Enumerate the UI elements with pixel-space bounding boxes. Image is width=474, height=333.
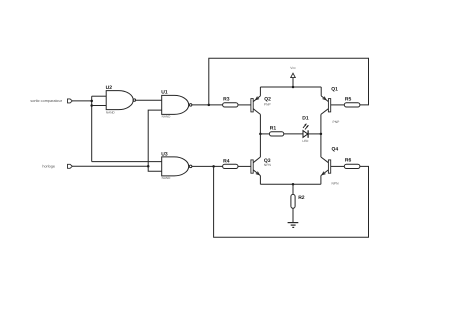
resistor R2 <box>291 194 295 208</box>
label U1 <box>161 90 168 96</box>
svg-text:R4: R4 <box>223 158 230 164</box>
node C: horloge junction <box>147 165 150 168</box>
wire: node C to U3 input B <box>148 166 162 171</box>
power rail Vcc <box>260 86 321 88</box>
resistor R3 <box>223 103 238 107</box>
label Q2 <box>264 96 271 102</box>
svg-text:NAND: NAND <box>162 115 172 119</box>
svg-text:R6: R6 <box>345 158 352 164</box>
resistor R6 <box>344 164 360 168</box>
node G: emitter rail junction <box>292 183 295 186</box>
svg-text:R2: R2 <box>298 195 305 201</box>
nand gate U1 <box>162 95 192 114</box>
label Vcc <box>290 66 296 70</box>
wire: node G to R2 <box>292 184 294 194</box>
svg-text:U2: U2 <box>106 85 113 91</box>
transistor Q3 NPN <box>251 157 261 176</box>
label PNP (Q1) <box>333 120 341 124</box>
wire: Q1 collector to node F <box>320 114 322 133</box>
label NAND (U1) <box>162 115 172 119</box>
resistor R1 <box>269 132 283 136</box>
node: Vcc tap junction <box>292 86 295 89</box>
svg-text:U3: U3 <box>161 152 168 158</box>
nand gate U3 <box>162 157 192 176</box>
resistor R4 <box>223 164 238 168</box>
node F: right bridge output <box>320 133 323 136</box>
wire: bottom emitter rail <box>260 183 321 185</box>
label NAND (U3) <box>162 176 172 180</box>
wire: top feedback loop node B to R5 right <box>209 58 369 105</box>
transistor Q4 NPN <box>321 157 331 176</box>
svg-text:PNP: PNP <box>333 120 341 124</box>
node D: junction at U3 output <box>212 165 215 168</box>
wire: comparator bus vertical <box>91 96 93 161</box>
svg-text:R5: R5 <box>345 97 352 103</box>
wire: R2 to ground <box>292 208 294 222</box>
label R5 <box>345 97 352 103</box>
label NPN (Q3) <box>264 163 272 167</box>
node A: junction P1/bus <box>90 100 93 103</box>
nand gate U2 <box>106 91 135 110</box>
label R4 <box>223 158 230 164</box>
input port P1 sortie comparateur <box>68 99 73 103</box>
svg-text:PNP: PNP <box>264 102 272 106</box>
label R1 <box>270 126 277 132</box>
wire: Q3 emitter to bottom rail <box>259 176 261 185</box>
diode D1 LED <box>303 124 309 138</box>
svg-text:horloge: horloge <box>42 165 55 169</box>
svg-text:LED: LED <box>302 139 309 143</box>
transistor Q1 PNP <box>321 96 331 115</box>
node B: junction at U1 output <box>208 104 211 107</box>
wire: D1 cathode to node F <box>308 133 321 135</box>
wire: Q1 base to R5 <box>331 104 345 106</box>
label LED <box>302 139 309 143</box>
label Q3 <box>264 158 271 164</box>
wire: bus to U2 input B <box>92 105 107 107</box>
svg-text:Q4: Q4 <box>332 147 339 153</box>
wire: P2 to node C <box>72 165 148 167</box>
label PNP (Q2) <box>264 102 272 106</box>
svg-text:NAND: NAND <box>162 176 172 180</box>
label: horloge <box>42 165 55 169</box>
wire: P1 to node A <box>72 100 91 102</box>
label NAND (U2) <box>106 111 116 115</box>
label Q4 <box>332 147 339 153</box>
ground <box>288 223 299 228</box>
wire: bottom feedback loop node D to R6 right <box>214 166 369 237</box>
label R6 <box>345 158 352 164</box>
wire: U1 input B to horloge bus <box>148 110 162 166</box>
label Q1 <box>331 86 338 92</box>
wire: U3 output to R4 <box>192 165 223 167</box>
wire: R4 to Q3 base <box>238 165 251 167</box>
wire: Q4 collector to node F <box>320 134 322 157</box>
label R2 <box>298 195 305 201</box>
svg-text:NAND: NAND <box>106 111 116 115</box>
power symbol Vcc <box>291 73 296 87</box>
wire: Q2 emitter to Vcc rail <box>259 87 261 96</box>
label: sortie comparateur <box>30 99 62 103</box>
wire: Q4 base to R6 <box>331 165 345 167</box>
svg-text:D1: D1 <box>302 115 309 121</box>
wire: Q4 emitter to bottom rail <box>320 176 322 185</box>
label NPN (Q4) <box>332 181 340 185</box>
svg-text:NPN: NPN <box>264 163 272 167</box>
label R3 <box>223 97 230 103</box>
wire: U1 output to R3 <box>192 104 223 106</box>
wire: bus to U3 input A <box>92 161 162 163</box>
label U2 <box>106 85 113 91</box>
wire: bus to U2 input A <box>92 95 107 97</box>
svg-text:R1: R1 <box>270 126 277 132</box>
svg-text:NPN: NPN <box>332 181 340 185</box>
node E: left bridge output <box>259 133 262 136</box>
transistor Q2 PNP <box>251 96 261 115</box>
resistor R5 <box>344 103 360 107</box>
wire: R3 to Q2 base <box>238 104 251 106</box>
node: junction bus/U2 input B <box>90 104 93 107</box>
svg-text:Q1: Q1 <box>331 86 338 92</box>
input port P2 horloge <box>68 164 73 168</box>
label D1 <box>302 115 309 121</box>
wire: U2 output to U1 input A <box>136 99 162 101</box>
svg-text:Vcc: Vcc <box>290 66 296 70</box>
wire: node E to R1 <box>260 133 269 135</box>
wire: R1 to D1 anode <box>284 133 303 135</box>
wire: Q2 collector to node E <box>259 114 261 133</box>
svg-text:sortie comparateur: sortie comparateur <box>30 99 62 103</box>
label U3 <box>161 152 168 158</box>
wire: Q1 emitter to Vcc rail <box>320 87 322 96</box>
svg-text:R3: R3 <box>223 97 230 103</box>
svg-text:U1: U1 <box>161 90 168 96</box>
wire: Q3 collector to node E <box>259 134 261 157</box>
